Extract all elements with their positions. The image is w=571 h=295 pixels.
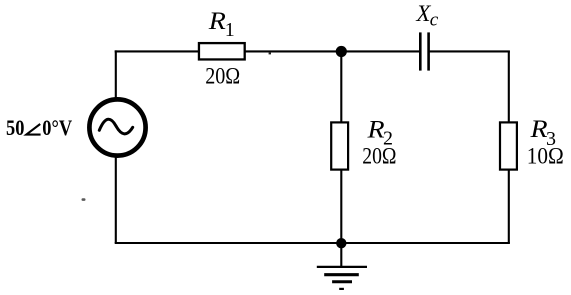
svg-text:50: 50 [6,115,24,140]
svg-text:R: R [366,115,384,143]
svg-text:R: R [529,115,547,143]
resistor R2 body [331,122,348,169]
wire top-right (capacitor right plate to top-right corner) [429,50,510,52]
svg-text:1: 1 [225,19,235,41]
capacitor Xc plates [419,32,422,70]
ground [317,243,367,289]
svg-text:20Ω: 20Ω [205,63,240,88]
svg-text:R: R [208,6,226,34]
AC source V1 [89,99,145,155]
wire middle vertical branch [340,51,342,243]
svg-text:c: c [430,9,439,30]
wire right vertical branch [508,51,510,243]
svg-text:20Ω: 20Ω [362,144,396,169]
wire bottom horizontal [115,242,510,244]
label source value 50∠0°V [6,115,72,140]
junction node top (between R1, R2, Xc) [336,46,347,57]
junction node bottom (ground node) [336,238,346,248]
sine symbol inside source [99,119,132,134]
stray mark left [82,198,86,201]
wire top-left horizontal (source to capacitor left plate) [115,50,420,52]
svg-text:10Ω: 10Ω [527,144,564,169]
stray dot on top wire [269,53,271,55]
resistor R1 body [199,43,245,59]
wire left vertical branch [115,50,117,243]
resistor R3 body [500,122,517,169]
svg-text:0°V: 0°V [42,115,72,140]
